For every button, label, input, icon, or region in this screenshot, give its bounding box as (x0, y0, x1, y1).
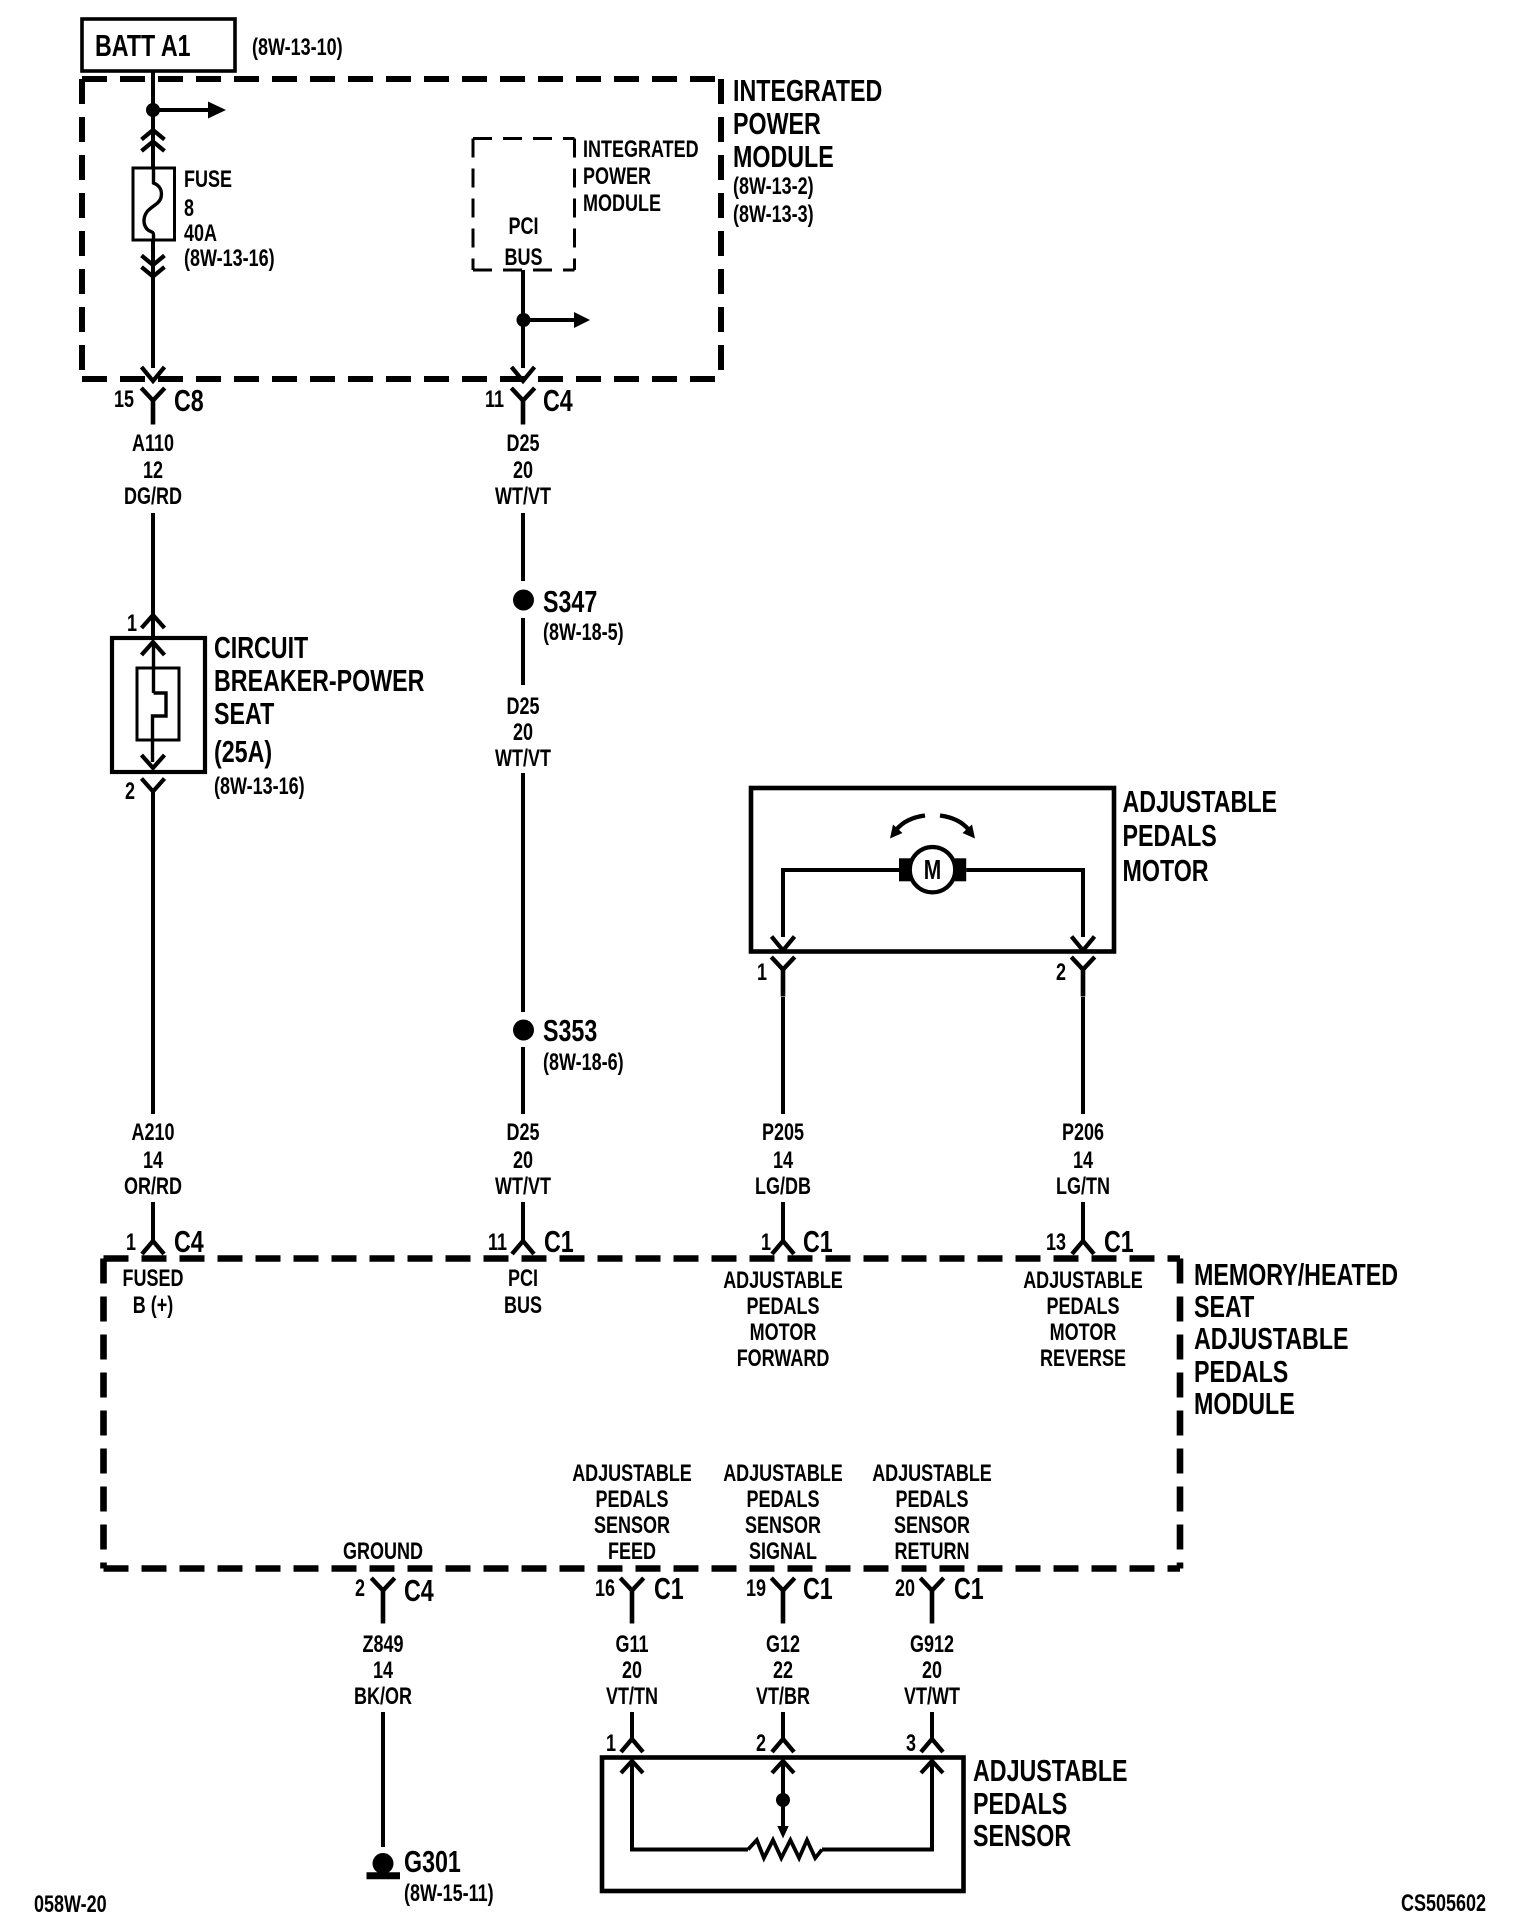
wire below S353 (521, 1047, 525, 1114)
svg-text:1: 1 (606, 1731, 616, 1757)
svg-text:A210: A210 (131, 1120, 174, 1146)
svg-text:WT/VT: WT/VT (495, 746, 551, 772)
wire from BATT A1 into IPM down to fuse (151, 71, 155, 169)
svg-text:B (+): B (+) (133, 1293, 173, 1319)
svg-text:ADJUSTABLE: ADJUSTABLE (572, 1461, 692, 1487)
wire label Z849 14 BK/OR (354, 1632, 412, 1710)
svg-text:SEAT: SEAT (214, 696, 274, 731)
adjustable pedals sensor box (602, 1758, 964, 1892)
svg-text:MOTOR: MOTOR (1050, 1320, 1117, 1346)
circuit breaker box (112, 638, 205, 772)
sensor return internal wire (822, 1761, 943, 1850)
open arrowhead at IPM boundary (142, 367, 165, 381)
svg-text:(8W-18-5): (8W-18-5) (543, 620, 624, 646)
svg-text:MODULE: MODULE (583, 191, 661, 217)
svg-text:MOTOR: MOTOR (750, 1320, 817, 1346)
svg-text:11: 11 (485, 387, 504, 413)
svg-text:ADJUSTABLE: ADJUSTABLE (872, 1461, 992, 1487)
svg-text:(8W-13-2): (8W-13-2) (733, 174, 814, 200)
label INTEGRATED POWER MODULE (right of box) (733, 73, 882, 228)
svg-text:13: 13 (1046, 1230, 1066, 1256)
open arrowhead at IPM boundary (PCI) (512, 367, 535, 381)
svg-text:3: 3 (906, 1731, 916, 1757)
svg-text:BUS: BUS (504, 1293, 542, 1319)
svg-text:19: 19 (746, 1576, 766, 1602)
svg-text:C4: C4 (543, 383, 573, 418)
svg-text:PCI: PCI (508, 214, 538, 240)
svg-text:(8W-13-10): (8W-13-10) (252, 35, 343, 61)
svg-text:CS505602: CS505602 (1401, 1891, 1486, 1917)
svg-text:14: 14 (1073, 1148, 1093, 1174)
svg-text:15: 15 (114, 387, 134, 413)
sensor pin 3 (906, 1731, 943, 1757)
ground wire Z849 (381, 1712, 385, 1847)
svg-text:2: 2 (756, 1731, 766, 1757)
wire from fuse down to IPM edge (151, 240, 155, 368)
junction node on PCI bus (517, 313, 531, 327)
pin 1 of circuit breaker (127, 611, 165, 637)
drawing code CS505602 (1401, 1891, 1486, 1917)
svg-text:FUSED: FUSED (123, 1266, 184, 1292)
svg-text:PCI: PCI (508, 1266, 538, 1292)
fuse 8 (40A) symbol (133, 168, 175, 240)
svg-text:WT/VT: WT/VT (495, 1174, 551, 1200)
svg-text:(8W-13-16): (8W-13-16) (184, 246, 275, 272)
motor wire to pin 1 (772, 868, 900, 951)
label CIRCUIT BREAKER-POWER SEAT (25A) (8W-13-16) (214, 630, 425, 800)
svg-text:A110: A110 (132, 431, 174, 457)
svg-text:SENSOR: SENSOR (894, 1513, 970, 1539)
wire G912 to sensor (930, 1712, 934, 1739)
connector 1 C4 (module) (126, 1224, 204, 1259)
svg-text:PEDALS: PEDALS (896, 1487, 969, 1513)
svg-text:D25: D25 (506, 694, 539, 720)
wire A210 to module connector (151, 1202, 155, 1241)
potentiometer resistor element (748, 1840, 822, 1858)
svg-text:1: 1 (127, 611, 137, 637)
svg-text:PEDALS: PEDALS (973, 1786, 1067, 1821)
svg-text:C1: C1 (654, 1571, 684, 1606)
adjustable pedals motor box (751, 788, 1114, 952)
svg-text:(8W-13-3): (8W-13-3) (733, 202, 814, 228)
svg-text:14: 14 (143, 1148, 163, 1174)
svg-text:ADJUSTABLE: ADJUSTABLE (723, 1461, 843, 1487)
splice S347 (513, 584, 624, 646)
svg-text:C1: C1 (803, 1224, 833, 1259)
svg-text:1: 1 (757, 960, 767, 986)
connector 20 C1 (sensor return) (895, 1571, 984, 1624)
svg-text:14: 14 (373, 1658, 393, 1684)
sensor pin 1 (606, 1731, 643, 1757)
svg-text:P206: P206 (1062, 1120, 1104, 1146)
svg-text:40A: 40A (184, 221, 217, 247)
wire G11 to sensor (630, 1712, 634, 1739)
svg-text:2: 2 (125, 779, 135, 805)
wire D25 to module connector (521, 1202, 525, 1241)
wire label D25 20 WT/VT (middle) (495, 694, 551, 772)
svg-text:PEDALS: PEDALS (747, 1487, 820, 1513)
svg-text:20: 20 (513, 1148, 533, 1174)
sensor pin 2 (756, 1731, 794, 1757)
svg-text:SEAT: SEAT (1194, 1289, 1254, 1324)
label INTEGRATED POWER MODULE (small, next to PCI BUS box) (583, 137, 699, 217)
double chevron below fuse (142, 256, 165, 277)
pin 2 of circuit breaker (125, 779, 165, 805)
svg-text:11: 11 (488, 1230, 507, 1256)
svg-text:ADJUSTABLE: ADJUSTABLE (1123, 784, 1278, 819)
motor rotation arrows (890, 816, 975, 839)
motor wire to pin 2 (966, 868, 1094, 951)
svg-text:(8W-13-16): (8W-13-16) (214, 774, 305, 800)
svg-text:SENSOR: SENSOR (973, 1818, 1071, 1853)
connector 2 C4 (ground out) (355, 1573, 434, 1624)
svg-text:MOTOR: MOTOR (1123, 853, 1209, 888)
svg-text:C1: C1 (954, 1571, 984, 1606)
svg-text:MODULE: MODULE (1194, 1386, 1295, 1421)
label MEMORY/HEATED SEAT ADJUSTABLE PEDALS MODULE (1194, 1257, 1398, 1421)
svg-text:BK/OR: BK/OR (354, 1684, 412, 1710)
motor pin 1 (757, 957, 795, 997)
svg-text:C1: C1 (1104, 1224, 1134, 1259)
battery feed box BATT A1 (82, 19, 235, 71)
svg-text:ADJUSTABLE: ADJUSTABLE (723, 1268, 843, 1294)
PCI BUS dashed box inside IPM (473, 139, 575, 271)
wire label D25 20 WT/VT (bottom) (495, 1120, 551, 1200)
connector 19 C1 (sensor signal) (746, 1571, 833, 1624)
svg-text:FORWARD: FORWARD (737, 1346, 830, 1372)
svg-text:D25: D25 (506, 431, 539, 457)
sensor wiper wire (772, 1761, 794, 1839)
reference (8W-13-10) (252, 35, 343, 61)
connector 13 C1 (module, motor reverse) (1046, 1224, 1134, 1259)
wire G12 to sensor (781, 1712, 785, 1739)
motor pin 2 (1056, 957, 1095, 997)
svg-text:ADJUSTABLE: ADJUSTABLE (1194, 1321, 1349, 1356)
wire label G12 22 VT/BR (756, 1632, 810, 1710)
svg-text:VT/TN: VT/TN (606, 1684, 658, 1710)
svg-text:C4: C4 (174, 1224, 204, 1259)
wire label G912 20 VT/WT (904, 1632, 960, 1710)
svg-text:C4: C4 (404, 1573, 434, 1608)
wire D25 to splice S347 (521, 513, 525, 581)
wire A210 from circuit breaker down (151, 792, 155, 1115)
wire label P205 14 LG/DB (755, 1120, 811, 1200)
svg-text:CIRCUIT: CIRCUIT (214, 630, 308, 665)
module pin label GROUND (343, 1539, 423, 1565)
svg-text:ADJUSTABLE: ADJUSTABLE (973, 1753, 1128, 1788)
svg-text:BUS: BUS (505, 245, 543, 271)
svg-text:SENSOR: SENSOR (745, 1513, 821, 1539)
svg-text:C1: C1 (803, 1571, 833, 1606)
wire from PCI BUS down to IPM edge (521, 270, 525, 368)
svg-text:DG/RD: DG/RD (124, 484, 182, 510)
wire label A210 14 OR/RD (124, 1120, 182, 1200)
svg-text:INTEGRATED: INTEGRATED (733, 73, 882, 108)
svg-text:8: 8 (184, 196, 194, 222)
junction node on battery feed (146, 103, 160, 117)
wire below S347 (521, 618, 525, 685)
wire A110 down to circuit breaker (151, 513, 155, 638)
svg-text:PEDALS: PEDALS (747, 1294, 820, 1320)
branch arrow PCI bus (523, 312, 590, 328)
module pin label ADJUSTABLE PEDALS SENSOR FEED (572, 1461, 692, 1565)
integrated power module dashed boundary (82, 79, 721, 379)
svg-text:16: 16 (595, 1576, 615, 1602)
svg-text:1: 1 (126, 1230, 136, 1256)
ground G301 (367, 1844, 494, 1907)
svg-text:INTEGRATED: INTEGRATED (583, 137, 699, 163)
svg-text:Z849: Z849 (362, 1632, 403, 1658)
connector 11 C4 (485, 383, 573, 425)
circuit breaker internal element (137, 642, 179, 768)
svg-text:POWER: POWER (583, 164, 651, 190)
svg-text:POWER: POWER (733, 106, 821, 141)
svg-text:PEDALS: PEDALS (596, 1487, 669, 1513)
svg-text:20: 20 (622, 1658, 642, 1684)
module pin label ADJUSTABLE PEDALS SENSOR SIGNAL (723, 1461, 843, 1565)
connector 15 C8 (114, 383, 204, 425)
motor M symbol (899, 847, 966, 892)
module pin label FUSED B (+) (123, 1266, 184, 1319)
svg-text:(25A): (25A) (214, 734, 272, 769)
svg-text:SENSOR: SENSOR (594, 1513, 670, 1539)
svg-text:VT/BR: VT/BR (756, 1684, 810, 1710)
wire D25 to splice S353 (521, 773, 525, 1012)
svg-text:MODULE: MODULE (733, 139, 834, 174)
module pin label ADJUSTABLE PEDALS MOTOR FORWARD (723, 1268, 843, 1372)
svg-text:SIGNAL: SIGNAL (749, 1539, 817, 1565)
svg-text:PEDALS: PEDALS (1194, 1354, 1288, 1389)
svg-text:MEMORY/HEATED: MEMORY/HEATED (1194, 1257, 1398, 1292)
module pin label PCI BUS (504, 1266, 542, 1319)
svg-text:GROUND: GROUND (343, 1539, 423, 1565)
svg-text:20: 20 (513, 458, 533, 484)
svg-text:2: 2 (1056, 960, 1066, 986)
svg-text:WT/VT: WT/VT (495, 484, 551, 510)
svg-text:12: 12 (143, 458, 163, 484)
svg-text:G12: G12 (766, 1632, 800, 1658)
svg-text:D25: D25 (506, 1120, 539, 1146)
svg-text:S347: S347 (543, 584, 597, 619)
connector 16 C1 (sensor feed) (595, 1571, 684, 1624)
svg-text:22: 22 (773, 1658, 793, 1684)
wire label D25 20 WT/VT (top) (495, 431, 551, 510)
label ADJUSTABLE PEDALS SENSOR (973, 1753, 1128, 1853)
connector 1 C1 (module, motor forward) (761, 1224, 833, 1259)
svg-text:LG/DB: LG/DB (755, 1174, 811, 1200)
svg-text:(8W-15-11): (8W-15-11) (404, 1881, 494, 1907)
wire label P206 14 LG/TN (1056, 1120, 1110, 1200)
wire label G11 20 VT/TN (606, 1632, 658, 1710)
module pin label ADJUSTABLE PEDALS SENSOR RETURN (872, 1461, 992, 1565)
svg-text:PEDALS: PEDALS (1123, 818, 1217, 853)
double chevron (wire continuation marker) above fuse (142, 130, 165, 151)
svg-text:20: 20 (922, 1658, 942, 1684)
memory/heated seat adjustable pedals module dashed boundary (104, 1259, 1181, 1569)
wire label A110 12 DG/RD (124, 431, 182, 510)
svg-text:OR/RD: OR/RD (124, 1174, 182, 1200)
branch arrow to other circuits (153, 102, 226, 119)
wire P205 (781, 997, 785, 1114)
svg-text:C8: C8 (174, 383, 204, 418)
svg-text:G11: G11 (615, 1632, 648, 1658)
fuse label FUSE 8 40A (8W-13-16) (184, 167, 275, 272)
svg-text:(8W-18-6): (8W-18-6) (543, 1050, 624, 1076)
svg-text:058W-20: 058W-20 (34, 1892, 107, 1918)
sensor feed internal wire (621, 1761, 748, 1850)
svg-text:P205: P205 (762, 1120, 804, 1146)
svg-text:20: 20 (895, 1576, 915, 1602)
svg-text:ADJUSTABLE: ADJUSTABLE (1023, 1268, 1143, 1294)
svg-text:S353: S353 (543, 1013, 597, 1048)
sheet number 058W-20 (34, 1892, 107, 1918)
svg-text:C1: C1 (544, 1224, 574, 1259)
svg-text:LG/TN: LG/TN (1056, 1174, 1110, 1200)
svg-text:14: 14 (773, 1148, 793, 1174)
splice S353 (513, 1013, 624, 1076)
svg-text:2: 2 (355, 1576, 365, 1602)
svg-text:G912: G912 (910, 1632, 954, 1658)
wire P206 (1081, 997, 1085, 1114)
svg-text:FUSE: FUSE (184, 167, 232, 193)
svg-text:PEDALS: PEDALS (1047, 1294, 1120, 1320)
svg-text:VT/WT: VT/WT (904, 1684, 960, 1710)
svg-text:REVERSE: REVERSE (1040, 1346, 1126, 1372)
wire P205 to module connector (781, 1202, 785, 1241)
module pin label ADJUSTABLE PEDALS MOTOR REVERSE (1023, 1268, 1143, 1372)
svg-text:1: 1 (761, 1230, 771, 1256)
svg-text:G301: G301 (404, 1844, 461, 1879)
connector 11 C1 (module) (488, 1224, 574, 1259)
svg-text:FEED: FEED (608, 1539, 656, 1565)
svg-text:20: 20 (513, 720, 533, 746)
svg-text:M: M (924, 855, 941, 886)
label ADJUSTABLE PEDALS MOTOR (1123, 784, 1278, 888)
svg-text:BATT A1: BATT A1 (95, 28, 191, 63)
svg-text:RETURN: RETURN (895, 1539, 970, 1565)
wire P206 to module connector (1081, 1202, 1085, 1241)
svg-text:BREAKER-POWER: BREAKER-POWER (214, 663, 425, 698)
